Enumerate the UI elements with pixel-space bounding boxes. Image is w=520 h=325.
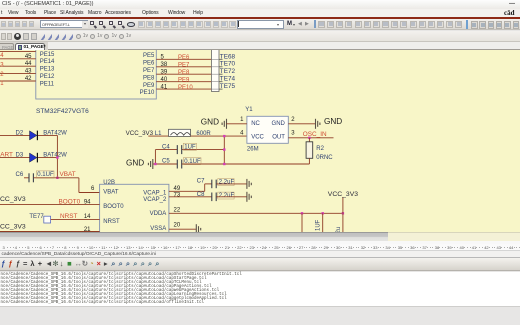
svg-text:Y1: Y1 bbox=[245, 107, 253, 113]
capacitor C4 1UF bbox=[155, 143, 224, 154]
red net labels PE6-PE10 bbox=[178, 55, 193, 91]
U2A part value STM32F427VGT6 bbox=[36, 108, 89, 115]
svg-text:C6: C6 bbox=[16, 172, 24, 178]
U2A left pin names PE15-PE11 bbox=[40, 52, 55, 88]
U2B left pin numbers 94 14 21 bbox=[84, 199, 91, 233]
svg-text:BAT42W: BAT42W bbox=[43, 153, 67, 159]
U2B left pin names bbox=[103, 190, 124, 225]
net label OSC_IN bbox=[303, 131, 327, 138]
svg-text:TE72: TE72 bbox=[220, 68, 236, 75]
testpoint labels TE68 TE70 TE72 TE74 TE75 bbox=[220, 53, 236, 90]
svg-text:VSSA: VSSA bbox=[150, 226, 166, 232]
ground symbol at C7 bbox=[247, 179, 251, 189]
svg-text:PE8: PE8 bbox=[178, 70, 190, 76]
Y1 pin numbers 1 4 2 3 bbox=[240, 117, 295, 137]
IC U2B body bbox=[100, 184, 169, 233]
wire VBAT to U2B pin 6 bbox=[79, 178, 100, 193]
svg-text:NRST: NRST bbox=[103, 219, 120, 225]
wire GND to Y1 pin 1 bbox=[227, 123, 247, 125]
diode D2 BAT42W bbox=[0, 131, 67, 141]
testpoint TE77 bbox=[29, 214, 50, 223]
svg-text:PE7: PE7 bbox=[143, 68, 155, 74]
wire Y1 pin 3 OSC_IN bbox=[288, 137, 333, 139]
svg-text:1UF: 1UF bbox=[316, 219, 322, 231]
U2A right pin names PE5-PE10 bbox=[140, 53, 155, 96]
svg-text:VCAP_2: VCAP_2 bbox=[143, 197, 167, 203]
U2A right pin numbers 5 38 39 40 41 bbox=[161, 55, 168, 91]
svg-text:VDDA: VDDA bbox=[150, 211, 167, 217]
svg-text:22: 22 bbox=[174, 207, 181, 213]
net label VBAT bbox=[60, 171, 76, 178]
svg-text:ART: ART bbox=[0, 151, 13, 158]
svg-text:PE12: PE12 bbox=[40, 74, 55, 80]
svg-text:PE10: PE10 bbox=[178, 85, 193, 91]
svg-text:PE11: PE11 bbox=[40, 81, 55, 87]
capacitor C7 2.2uF bbox=[197, 179, 247, 189]
svg-text:GND: GND bbox=[201, 118, 219, 127]
svg-text:U2B: U2B bbox=[103, 180, 115, 186]
svg-text:C8: C8 bbox=[197, 192, 205, 198]
crystal oscillator Y1 body bbox=[245, 107, 288, 143]
U2A left pin numbers 45 44 43 42 bbox=[25, 54, 32, 82]
svg-text:TE74: TE74 bbox=[220, 76, 236, 83]
svg-text:0.1UF: 0.1UF bbox=[37, 172, 54, 178]
svg-text:1UF: 1UF bbox=[184, 144, 196, 150]
svg-text:CC_3V3: CC_3V3 bbox=[0, 196, 26, 203]
svg-text:C7: C7 bbox=[197, 179, 205, 185]
svg-text:GND: GND bbox=[324, 117, 342, 126]
svg-text:NC: NC bbox=[251, 121, 260, 127]
wires to U2A left pins bbox=[0, 51, 36, 81]
IC U2A STM32F427VGT6 body bbox=[36, 48, 157, 99]
capacitor C6 0.1UF bbox=[16, 171, 79, 182]
svg-text:BOOT0: BOOT0 bbox=[103, 204, 124, 210]
ground symbol + label GND (Y1 pin2) bbox=[316, 117, 343, 129]
wire VCC rail vertical junctions bbox=[223, 135, 225, 165]
svg-text:OUT: OUT bbox=[272, 135, 285, 141]
svg-text:VBAT: VBAT bbox=[103, 190, 119, 196]
wire VDDA rail bbox=[169, 212, 344, 232]
diode D3 BAT42W bbox=[0, 153, 67, 163]
value label 1UF (rotated, clipped caps below) bbox=[316, 219, 342, 233]
svg-text:PE13: PE13 bbox=[40, 67, 55, 73]
svg-text:2.2uF: 2.2uF bbox=[219, 180, 235, 186]
svg-text:PE15: PE15 bbox=[40, 52, 55, 58]
red net label ART (truncated UART) bbox=[0, 151, 13, 158]
ground symbol + label GND (Y1 pin1) bbox=[201, 118, 227, 129]
svg-text:26M: 26M bbox=[247, 146, 259, 152]
svg-text:GND: GND bbox=[272, 121, 286, 127]
svg-text:VCC: VCC bbox=[251, 135, 264, 141]
svg-text:0.1UF: 0.1UF bbox=[184, 159, 201, 165]
svg-text:0RNC: 0RNC bbox=[316, 155, 333, 161]
Y1 value 26M bbox=[247, 146, 259, 152]
power label VCC_3V3 (left lower, truncated) bbox=[0, 224, 26, 231]
svg-text:VCC_3V3: VCC_3V3 bbox=[328, 191, 358, 198]
ground symbol at VSSA bbox=[196, 224, 200, 234]
net label NRST bbox=[60, 213, 77, 220]
U2B pin number 6 bbox=[91, 186, 95, 192]
svg-text:TE68: TE68 bbox=[220, 53, 236, 60]
wire U2B VCAP_1 pin 49 bbox=[169, 184, 205, 191]
wire U2B VCAP_2 pin 73 bbox=[169, 196, 212, 198]
svg-text:CC_3V3: CC_3V3 bbox=[0, 224, 26, 231]
resistor R2 0RNC bbox=[306, 138, 333, 164]
svg-text:600R: 600R bbox=[196, 131, 211, 137]
wire BOOT0 net bbox=[0, 204, 100, 206]
capacitor C8 2.2uF bbox=[197, 192, 247, 201]
svg-text:73: 73 bbox=[174, 193, 181, 199]
power label VCC_3V3 (left, truncated) bbox=[0, 196, 26, 203]
svg-text:PE10: PE10 bbox=[140, 90, 155, 96]
U2B refdes bbox=[103, 180, 115, 186]
svg-text:TE75: TE75 bbox=[220, 83, 236, 90]
U2B right pin names bbox=[143, 190, 167, 232]
svg-text:PE6: PE6 bbox=[143, 61, 155, 67]
ground symbol + label GND (at C5) bbox=[126, 158, 154, 169]
power label VCC_3V3 (at L1) bbox=[126, 130, 154, 137]
ground symbol at C8 bbox=[247, 192, 251, 202]
svg-text:TE77: TE77 bbox=[29, 214, 44, 220]
net label BOOT0 bbox=[59, 198, 81, 205]
svg-text:R2: R2 bbox=[316, 146, 324, 152]
truncated red net labels at left edge bbox=[0, 53, 4, 87]
svg-text:VCAP_1: VCAP_1 bbox=[143, 190, 167, 196]
svg-text:OSC_IN: OSC_IN bbox=[303, 131, 327, 138]
inductor L1 600R bbox=[148, 129, 247, 137]
svg-text:BOOT0: BOOT0 bbox=[59, 198, 81, 205]
svg-text:GND: GND bbox=[126, 158, 144, 167]
wire Y1 pin 2 to GND bbox=[288, 123, 315, 125]
wire U2B VSSA pin 20 bbox=[169, 228, 196, 230]
svg-text:NRST: NRST bbox=[60, 213, 77, 220]
capacitor C5 0.1UF bbox=[154, 158, 309, 169]
svg-text:VBAT: VBAT bbox=[60, 171, 76, 178]
svg-text:PE7: PE7 bbox=[178, 63, 190, 69]
svg-text:PE6: PE6 bbox=[178, 55, 190, 61]
wires PE6..PE10 from U2A to testpoints bbox=[156, 59, 211, 89]
svg-text:TE70: TE70 bbox=[220, 61, 236, 68]
svg-text:STM32F427VGT6: STM32F427VGT6 bbox=[36, 108, 89, 115]
wire joining D2 D3 C6 outputs bbox=[56, 135, 58, 179]
power symbol VCC_3V3 (right) bbox=[328, 191, 358, 213]
wire VCC_3V3 to U2B pin 21 bbox=[0, 231, 100, 233]
svg-text:20: 20 bbox=[174, 222, 181, 228]
svg-text:PE9: PE9 bbox=[178, 78, 190, 84]
svg-text:14: 14 bbox=[84, 214, 91, 220]
testpoint connector column TE68-TE75 bbox=[212, 49, 223, 92]
svg-text:PE14: PE14 bbox=[40, 59, 55, 65]
svg-text:PE9: PE9 bbox=[143, 83, 155, 89]
svg-text:PE5: PE5 bbox=[143, 53, 155, 59]
svg-text:2.2uF: 2.2uF bbox=[219, 193, 235, 199]
wire C4/C5 left vertical bbox=[154, 150, 156, 166]
svg-text:BAT42W: BAT42W bbox=[43, 131, 67, 137]
svg-text:PE8: PE8 bbox=[143, 75, 155, 81]
wire NRST net bbox=[51, 218, 100, 220]
U2B right pin numbers 49 73 22 20 bbox=[174, 186, 181, 228]
